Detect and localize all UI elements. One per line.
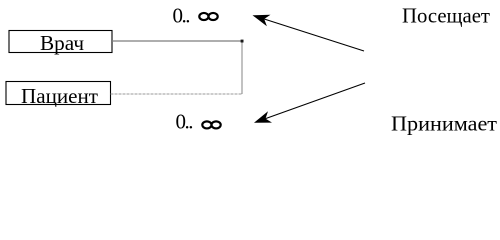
arrow Посещает (to top-left) — [253, 15, 365, 51]
entity box Пациент — [6, 82, 111, 109]
cardinality label 0..∞ (top) — [173, 4, 218, 28]
wire vertical junction segment — [241, 41, 243, 94]
node junction dot — [241, 40, 244, 43]
svg-text:Посещает: Посещает — [402, 4, 490, 28]
arrow Принимает (to bottom-left) — [254, 83, 365, 123]
wire from Врач to junction — [112, 40, 242, 42]
svg-text:Пациент: Пациент — [21, 84, 98, 108]
svg-text:Принимает: Принимает — [391, 112, 497, 136]
svg-text:0..: 0.. — [173, 4, 191, 28]
svg-text:0..: 0.. — [176, 110, 194, 134]
wire from Пациент to junction — [111, 93, 243, 95]
entity box Врач — [9, 31, 112, 56]
svg-text:Врач: Врач — [40, 31, 84, 55]
cardinality label 0..∞ (bottom) — [176, 110, 221, 134]
